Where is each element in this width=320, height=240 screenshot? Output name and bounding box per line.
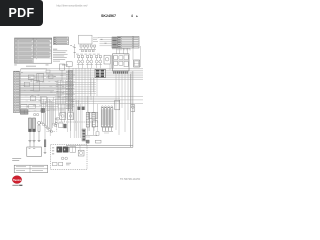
relay box K3: [24, 82, 29, 87]
ground G1: [28, 141, 31, 143]
vertical mark left of B1: [74, 44, 76, 58]
notes text block: [53, 49, 68, 62]
terminal strip TB1 (dark two-column): [95, 69, 105, 77]
dark box x41 y108: [41, 108, 45, 112]
cable component W1: [29, 118, 32, 141]
contactor CT1 (dark): [57, 147, 62, 152]
wire number labels speckle: [21, 73, 75, 112]
unit UA box+circle: [60, 113, 66, 120]
hatched block H1: [20, 110, 28, 115]
svg-text:TK 56728-19-PD: TK 56728-19-PD: [120, 177, 140, 181]
bus lines y96-104: [55, 96, 143, 103]
dark connectors row: [78, 107, 85, 110]
center verticals to connector row: [59, 68, 98, 138]
legend table T1 (wire/component legend, two columns): [15, 38, 52, 63]
dots below T2: [70, 45, 73, 47]
bus bundle left y84-97: [19, 84, 74, 96]
labels row y64: [14, 65, 68, 67]
left connector stack CB1: [14, 71, 20, 113]
drops from tables to module: [117, 48, 134, 60]
labels above relay row: [76, 53, 100, 56]
components above DB1 left: [56, 117, 66, 128]
relay box K1: [28, 75, 34, 82]
ladder component LD1: [86, 112, 89, 135]
ladder component LD2: [92, 112, 95, 135]
svg-text:Thermo: Thermo: [13, 179, 22, 182]
resistor bank RB2: [104, 106, 106, 131]
resistor bank RB4: [111, 106, 113, 131]
coil circles in DB1: [61, 157, 67, 160]
wires under top tables: [112, 48, 130, 50]
wires above ladders: [88, 96, 94, 112]
wiring frame lines: [21, 69, 47, 111]
svg-text:▸: ▸: [135, 14, 138, 18]
Thermo King logo: [12, 176, 21, 184]
component right of DB1: [78, 145, 84, 156]
main bus lines y68-80: [21, 68, 143, 79]
boxes bottom row left: [21, 104, 36, 108]
svg-text:SK24567: SK24567: [101, 14, 116, 18]
dashed box DB1: [51, 145, 88, 170]
box K6: [30, 96, 35, 101]
sensor S1: [33, 113, 35, 115]
svg-text:htip;//thermoworldwide.net/: htip;//thermoworldwide.net/: [57, 4, 88, 8]
aux box U2: [134, 60, 140, 67]
solenoid pair SV3: [95, 55, 102, 68]
PDF badge: [0, 0, 43, 26]
boxes right of contactors: [70, 147, 76, 153]
extra verticals x89-97: [90, 118, 95, 131]
short wire right of T5: [140, 46, 142, 67]
small box right mid: [115, 100, 120, 110]
relay box K4: [33, 81, 39, 91]
logo caption: [12, 185, 18, 186]
resistor bank RB1: [101, 106, 103, 131]
vertical bundle x41-56: [41, 97, 56, 132]
small boxes on wires x46-53: [46, 70, 53, 79]
component right x131 y105: [131, 105, 135, 112]
marks left inside DB1: [52, 148, 54, 155]
bank manifold: [102, 128, 114, 133]
solenoid pair SV1: [77, 55, 84, 68]
panel bottom double line: [66, 145, 133, 147]
unit UB box+circle: [68, 113, 74, 120]
vertical wires center dropping from bus: [58, 64, 131, 135]
contactor CT2 (dark): [63, 147, 68, 152]
small boxes y140: [86, 140, 101, 143]
battery caption text: [12, 158, 21, 161]
resistor bank RB3: [107, 106, 109, 131]
small box below comb: [93, 121, 98, 127]
center connector strip CS1: [66, 71, 73, 112]
component M1 box with circle: [104, 55, 114, 68]
empty rectangle box B1 top-right: [79, 35, 93, 44]
mini table T2 (symbol legend): [54, 37, 69, 45]
component cluster under B1: [79, 45, 96, 52]
solenoid pair SV2: [86, 55, 93, 68]
wires from left stack: [19, 73, 75, 110]
connector table TA: [118, 37, 134, 49]
relay box K2: [37, 74, 44, 81]
fuse component F2: [44, 113, 47, 154]
verticals x47-53 down: [48, 100, 53, 136]
center horizontals y82-95: [56, 83, 96, 94]
title block: [14, 165, 47, 172]
tiny text right of B1: [93, 38, 99, 42]
sensor S2: [36, 113, 38, 115]
control module U1: [113, 54, 130, 71]
cable component W2: [33, 118, 36, 141]
U1 pin strip: [113, 71, 128, 73]
dashed boundary line y122: [55, 122, 98, 132]
connector table TB: [133, 37, 139, 49]
fuse component F1: [38, 121, 41, 141]
battery BT1: [27, 143, 42, 156]
comb structure: [88, 113, 98, 119]
V connectors y128-137: [85, 132, 99, 137]
panel right double line: [131, 71, 133, 147]
circles x56: [55, 118, 57, 125]
dark cell strip TS1 top-right: [112, 37, 117, 48]
ground G2: [32, 141, 35, 143]
wires left of TS1: [98, 38, 112, 46]
cluster boxes x60 y62: [60, 62, 73, 80]
dashed wire into DB1: [47, 131, 56, 133]
bottom row in DB1: [52, 162, 71, 165]
box K5: [41, 96, 47, 103]
dark cell strip x82-85: [82, 129, 86, 141]
svg-text:4: 4: [131, 14, 133, 18]
